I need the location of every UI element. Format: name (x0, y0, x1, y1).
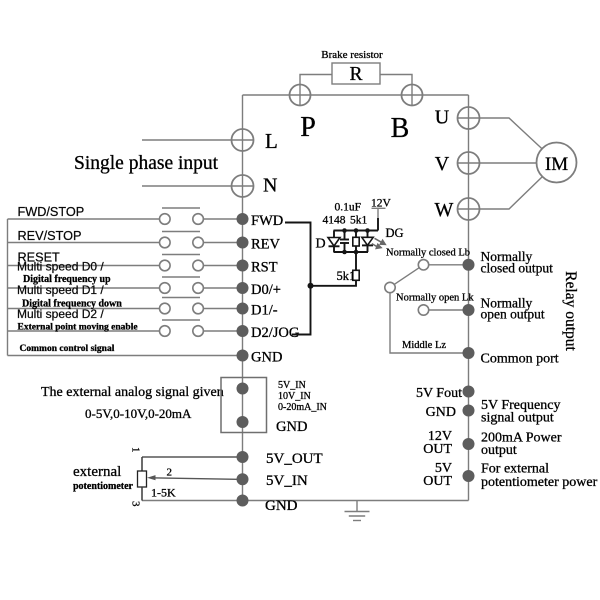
svg-text:10V_IN: 10V_IN (278, 391, 311, 402)
label: GND (analog box) (276, 419, 307, 435)
resistor 5k1 (parallel) (353, 231, 359, 253)
svg-text:1-5K: 1-5K (151, 486, 176, 500)
wire: network top rail (334, 230, 379, 232)
label: pin 1 (130, 447, 142, 453)
wire: left bus vertical (L,N,FWD..GND) (242, 95, 244, 501)
terminal W (458, 198, 480, 220)
svg-text:3: 3 (130, 501, 142, 507)
label: 4148 (323, 215, 346, 227)
svg-text:FWD/STOP: FWD/STOP (18, 205, 85, 219)
label B (391, 113, 410, 144)
relay contact c3 (normally open) (418, 305, 463, 315)
wire: U to motor (480, 118, 543, 149)
svg-text:L: L (265, 129, 278, 153)
svg-text:Common port: Common port (481, 352, 559, 367)
node 12V OUT (423, 429, 474, 457)
svg-text:W: W (435, 199, 454, 221)
motor IM (537, 143, 577, 183)
svg-text:The external analog signal giv: The external analog signal given (41, 385, 224, 400)
switch K4 (Multi speed D0) (160, 277, 204, 293)
svg-text:5V Fout: 5V Fout (416, 386, 462, 401)
capacitor 0.1uF (340, 231, 349, 253)
node: bracket junction (308, 283, 314, 289)
svg-text:open output: open output (481, 307, 545, 322)
svg-text:5V_IN: 5V_IN (266, 473, 308, 489)
label: Multi speed D0 (17, 260, 104, 274)
terminal P (290, 85, 311, 106)
switch K5 (Multi speed D1) (160, 298, 204, 314)
resistor R (brake resistor box) (332, 63, 380, 85)
switch K6 (Multi speed D2) (160, 320, 204, 336)
wire: top rail from left bus to right bus (243, 94, 469, 96)
node: normally open output (463, 296, 545, 322)
label: 5V Frequency signal output (481, 398, 560, 426)
label: External point moving enable (18, 323, 138, 333)
label V (435, 153, 450, 175)
node 5V_OUT (237, 451, 323, 467)
potentiometer 1-5K (138, 457, 147, 501)
wire: 5V_OUT lead (142, 456, 237, 458)
terminal L (232, 129, 254, 151)
svg-text:Multi speed D0 /: Multi speed D0 / (17, 260, 104, 274)
wire: D1 row (8, 308, 238, 310)
label: Digital frequency up (23, 274, 111, 285)
svg-text:external: external (73, 464, 121, 480)
wire: D0 row (8, 287, 238, 289)
svg-text:5V_IN: 5V_IN (278, 380, 306, 391)
label W (435, 199, 454, 221)
node 5V_IN (237, 473, 308, 489)
svg-text:12V: 12V (371, 198, 392, 210)
wire: L input lead (142, 139, 243, 141)
label: Digital frequency down (22, 299, 122, 310)
label: The external analog signal given (41, 385, 224, 400)
svg-text:N: N (263, 175, 277, 197)
node D1/- (237, 303, 278, 319)
svg-text:potentiometer power: potentiometer power (481, 475, 598, 490)
svg-text:5k1: 5k1 (350, 215, 368, 227)
wire: FWD to D2/JOG jog bracket (285, 223, 311, 335)
svg-text:B: B (391, 113, 410, 144)
node FWD (237, 213, 284, 229)
svg-text:2: 2 (167, 467, 173, 479)
terminal U (458, 107, 480, 129)
switch K2 (REV/STOP) (160, 232, 204, 248)
svg-text:Brake resistor: Brake resistor (321, 49, 383, 61)
svg-text:U: U (435, 107, 450, 129)
label: pin 2 (167, 467, 173, 479)
svg-text:Multi speed D2 /: Multi speed D2 / (17, 307, 104, 321)
label: REV/STOP (18, 229, 82, 243)
LED DG (362, 231, 373, 253)
wire: V to motor (480, 162, 537, 164)
wire: 12V feed (372, 208, 386, 230)
svg-text:External point moving enable: External point moving enable (18, 323, 138, 333)
svg-text:GND: GND (276, 419, 307, 435)
wire: REV row (8, 242, 238, 244)
label: 5k1 (lower) (337, 269, 356, 283)
node D0/+ (237, 282, 281, 298)
relay contact c2 (common arm pivot) (385, 282, 395, 292)
label: 0-5V,0-10V,0-20mA (85, 406, 192, 421)
label N (263, 175, 277, 197)
svg-text:5V_OUT: 5V_OUT (266, 451, 323, 467)
label: Relay output (rotated) (562, 271, 579, 351)
label: 5V_IN 10V_IN 0-20mA_IN (278, 380, 327, 413)
svg-text:output: output (481, 443, 517, 458)
relay contact c1 (normally closed) (418, 260, 463, 270)
label: Middle Lz (402, 340, 446, 351)
svg-text:OUT: OUT (423, 474, 452, 489)
terminal N (232, 175, 254, 197)
wire: brake resistor bypass left (300, 75, 332, 85)
node GND (bottom) (237, 495, 298, 515)
node REV (237, 237, 281, 253)
node D2/JOG (237, 325, 300, 341)
svg-text:P: P (300, 112, 316, 143)
node: common port (463, 347, 559, 367)
svg-text:D: D (316, 237, 326, 252)
wire: network bottom rail (334, 251, 369, 253)
node GND (digital) (237, 350, 283, 366)
label: 12V (371, 198, 392, 210)
label: 200mA Power output (481, 431, 562, 459)
label: Common control signal (20, 344, 115, 354)
LED arrows (372, 238, 386, 248)
wire: W to motor (480, 177, 543, 209)
svg-text:0.1uF: 0.1uF (335, 202, 362, 214)
label DG (386, 226, 404, 240)
svg-text:V: V (435, 153, 450, 175)
wire: D2 row (8, 330, 238, 332)
wire: bottom GND rail (142, 500, 469, 502)
svg-text:IM: IM (545, 154, 568, 175)
relay arm (394, 268, 419, 285)
wire: junction to 5k1 resistor (311, 280, 357, 286)
svg-text:D0/+: D0/+ (251, 282, 281, 298)
label: 0.1uF (335, 202, 362, 214)
wire: brake resistor bypass right (380, 75, 412, 85)
svg-text:signal output: signal output (481, 411, 554, 426)
svg-text:DG: DG (386, 226, 404, 240)
label: Multi speed D2 (17, 307, 104, 321)
label: pin 3 (130, 501, 142, 507)
label: Brake resistor (321, 49, 383, 61)
svg-text:Middle Lz: Middle Lz (402, 340, 446, 351)
label: FWD/STOP (18, 205, 85, 219)
node: analog 5V_IN (237, 383, 249, 395)
diode D (4148) (328, 231, 340, 253)
svg-text:closed output: closed output (481, 261, 554, 276)
wire: pivot down to middle (390, 293, 463, 353)
wire: RST row (8, 265, 238, 267)
wire: left comb vertical (7, 219, 9, 356)
label: Single phase input (74, 153, 219, 174)
terminal V (458, 152, 480, 174)
label: RESET (18, 251, 61, 265)
label: Normally closed Lb (386, 248, 470, 259)
label U (435, 107, 450, 129)
wire: N input lead (142, 185, 243, 187)
terminal B (402, 85, 423, 106)
wire: right bus vertical (U,V,W,relay,bottom) (468, 95, 470, 501)
switch K3 (RESET) (160, 255, 204, 271)
resistor 5k1 (lower) (353, 252, 359, 280)
svg-text:Normally closed Lb: Normally closed Lb (386, 248, 470, 259)
node 5V Fout (416, 386, 475, 402)
svg-text:GND: GND (426, 405, 456, 420)
svg-text:REV/STOP: REV/STOP (18, 229, 82, 243)
node: normally closed output (463, 249, 554, 276)
node GND (right) (426, 405, 475, 421)
svg-text:Common control signal: Common control signal (20, 344, 115, 354)
label: Multi speed D1 (17, 283, 104, 297)
label D (316, 237, 326, 252)
svg-text:R: R (349, 64, 362, 85)
label: external potentiometer (73, 464, 134, 492)
analog input box (221, 378, 267, 433)
svg-text:Normally open Lk: Normally open Lk (396, 293, 474, 304)
svg-text:RST: RST (251, 260, 278, 276)
svg-text:potentiometer: potentiometer (73, 481, 134, 492)
label L (265, 129, 278, 153)
svg-text:1: 1 (130, 447, 142, 453)
wire: 5V_IN wiper lead with arrow (147, 475, 237, 480)
svg-text:OUT: OUT (423, 442, 452, 457)
node RST (237, 260, 278, 276)
svg-text:Multi speed D1 /: Multi speed D1 / (17, 283, 104, 297)
svg-text:D1/-: D1/- (251, 303, 278, 319)
ground symbol (345, 501, 370, 521)
label: 1-5K (151, 486, 176, 500)
svg-text:GND: GND (265, 498, 298, 514)
label: Normally open Lk (396, 293, 474, 304)
svg-text:FWD: FWD (251, 213, 283, 229)
svg-text:Relay output: Relay output (562, 271, 579, 351)
label P (300, 112, 316, 143)
node: analog GND (237, 416, 249, 428)
label: 5k1 (upper) (350, 215, 368, 227)
junction dots on rails (342, 228, 370, 254)
svg-text:Single phase input: Single phase input (74, 153, 219, 174)
label: For external potentiometer power (481, 462, 598, 491)
svg-text:5k1: 5k1 (337, 269, 356, 283)
svg-text:0-20mA_IN: 0-20mA_IN (278, 402, 327, 413)
svg-text:0-5V,0-10V,0-20mA: 0-5V,0-10V,0-20mA (85, 406, 192, 421)
svg-text:D2/JOG: D2/JOG (251, 325, 300, 341)
wire: FWD row (8, 218, 238, 220)
node 5V OUT (423, 461, 474, 489)
svg-text:REV: REV (251, 237, 281, 253)
svg-text:4148: 4148 (323, 215, 346, 227)
wire: common control row (8, 355, 238, 357)
svg-text:GND: GND (251, 350, 282, 366)
switch K1 (FWD/STOP) (160, 208, 204, 224)
